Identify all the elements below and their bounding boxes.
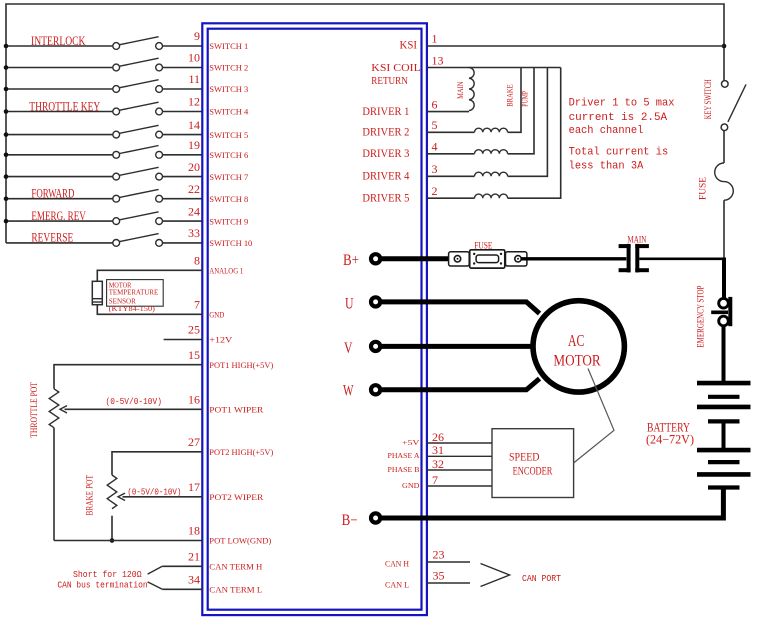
svg-text:SWITCH 1: SWITCH 1 [209, 41, 248, 51]
relay K1 MAIN contactor tips [619, 244, 649, 273]
svg-text:11: 11 [188, 72, 200, 86]
svg-text:7: 7 [194, 298, 200, 312]
wire pot1 low leg [53, 428, 55, 541]
op-amp U1 controller box (blue double border) [202, 23, 427, 615]
svg-text:32: 32 [432, 457, 444, 471]
inductor L2 driver2 load coil [427, 68, 521, 133]
svg-text:8: 8 [194, 254, 200, 268]
svg-text:PUMP: PUMP [520, 91, 530, 107]
svg-text:ENCODER: ENCODER [513, 464, 553, 478]
wire contactor to battery branch [639, 257, 724, 260]
wire pin 18 pot low [54, 540, 203, 542]
wire can port chevron [481, 564, 510, 587]
svg-text:19: 19 [188, 138, 200, 152]
svg-text:W: W [343, 382, 354, 399]
wire B- to battery [380, 489, 723, 518]
wire can termination chevron [148, 566, 163, 589]
svg-text:FUSE: FUSE [474, 241, 493, 251]
svg-text:DRIVER 3: DRIVER 3 [362, 148, 409, 160]
svg-text:SWITCH 7: SWITCH 7 [209, 172, 248, 182]
svg-text:GND: GND [402, 481, 420, 490]
switch S11 key switch [721, 81, 746, 131]
svg-text:17: 17 [188, 480, 200, 494]
wire leader motor to encoder [574, 369, 614, 464]
svg-text:DRIVER 2: DRIVER 2 [362, 127, 409, 139]
svg-text:24: 24 [188, 204, 200, 218]
wire pin 35 can L [427, 568, 470, 583]
svg-text:AC: AC [568, 331, 584, 350]
svg-text:20: 20 [188, 160, 200, 174]
svg-text:B+: B+ [343, 252, 359, 269]
svg-text:MOTOR: MOTOR [553, 353, 601, 370]
node pot low junction [110, 538, 115, 543]
motor M1 AC motor [533, 301, 624, 392]
svg-text:PHASE A: PHASE A [388, 451, 421, 460]
svg-text:EMERG. REV: EMERG. REV [31, 209, 85, 223]
wire pin 34 can term L [162, 588, 203, 590]
svg-text:35: 35 [433, 568, 445, 582]
svg-text:SWITCH 6: SWITCH 6 [209, 150, 248, 160]
svg-text:DRIVER 5: DRIVER 5 [362, 192, 409, 204]
svg-text:(0-5V/0-10V): (0-5V/0-10V) [106, 396, 162, 407]
inductor L3 driver3 load coil [427, 68, 534, 154]
svg-text:18: 18 [188, 524, 200, 538]
svg-text:KEY SWITCH: KEY SWITCH [704, 79, 714, 119]
wire W phase [380, 379, 540, 390]
svg-text:POT2 WIPER: POT2 WIPER [209, 492, 263, 502]
svg-text:SWITCH 2: SWITCH 2 [209, 63, 248, 73]
wire pin 1 KSI [427, 45, 724, 47]
terminal B+ [371, 254, 380, 263]
svg-text:FORWARD: FORWARD [31, 187, 74, 201]
svg-text:7: 7 [432, 473, 438, 487]
terminal V [371, 342, 380, 351]
svg-text:CAN PORT: CAN PORT [522, 574, 562, 584]
label driver note text [569, 97, 675, 172]
label AC MOTOR [553, 331, 601, 370]
terminal U [371, 297, 380, 306]
svg-text:6: 6 [432, 97, 438, 111]
svg-text:2: 2 [432, 184, 438, 198]
wire pin 13 KSI coil return bus [427, 67, 561, 69]
inductor L5 driver5 load coil [427, 68, 561, 199]
battery BT1 [697, 383, 751, 487]
svg-text:SPEED: SPEED [509, 449, 540, 463]
node key-switch feed junction [722, 44, 727, 49]
svg-text:GND: GND [209, 310, 224, 320]
svg-text:MAIN: MAIN [455, 82, 465, 99]
svg-text:25: 25 [188, 323, 200, 337]
switch SW2 (pin 10) [4, 51, 203, 71]
switch S12 emergency stop [711, 297, 730, 326]
switch SW5 (pin 14) [4, 118, 203, 138]
terminal B- [371, 513, 380, 522]
inductor L1 MAIN contactor coil [469, 68, 474, 111]
wire pin 8 analog [97, 270, 203, 281]
svg-text:KSI: KSI [400, 38, 418, 52]
svg-text:POT2 HIGH(+5V): POT2 HIGH(+5V) [209, 447, 273, 457]
svg-text:BRAKE: BRAKE [505, 84, 515, 107]
switch SW3 (pin 11) [4, 72, 203, 92]
svg-text:33: 33 [188, 226, 200, 240]
svg-text:THROTTLE POT: THROTTLE POT [30, 382, 40, 438]
svg-text:15: 15 [188, 348, 200, 362]
svg-text:(24−72V): (24−72V) [646, 433, 694, 447]
wire pin 6 driver1 [427, 111, 469, 113]
svg-text:SWITCH 3: SWITCH 3 [209, 84, 248, 94]
resistor RV1 throttle pot [49, 389, 59, 428]
svg-text:34: 34 [188, 573, 200, 587]
svg-text:CAN TERM L: CAN TERM L [209, 585, 262, 595]
wire U phase [380, 302, 540, 314]
wire B+ to fuse [380, 256, 455, 261]
wire fuse to junction [723, 200, 725, 259]
wire encoder pin 32 [427, 457, 492, 471]
wire pin 25 +12V stub [164, 339, 203, 341]
svg-text:21: 21 [188, 550, 200, 564]
wire pin 21 can term H [162, 565, 203, 567]
wire pot2 low leg [111, 516, 113, 541]
svg-text:10: 10 [188, 51, 200, 65]
switch SW4 (pin 12) [4, 95, 203, 115]
svg-text:current is 2.5A: current is 2.5A [569, 112, 668, 124]
svg-text:CAN bus termination: CAN bus termination [57, 580, 147, 591]
svg-text:FUSE: FUSE [698, 176, 708, 200]
svg-text:POT LOW(GND): POT LOW(GND) [209, 536, 271, 546]
svg-text:DRIVER 1: DRIVER 1 [362, 106, 409, 118]
switch SW1 (pin 9) [4, 29, 203, 49]
wire pin 15 pot1 high [54, 365, 203, 389]
svg-text:1: 1 [432, 32, 438, 46]
svg-text:Driver 1 to 5 max: Driver 1 to 5 max [569, 97, 675, 109]
svg-text:4: 4 [432, 140, 438, 154]
inductor L4 driver4 load coil [427, 68, 548, 177]
svg-text:POT1 WIPER: POT1 WIPER [209, 405, 263, 415]
svg-text:5: 5 [432, 118, 438, 132]
svg-text:PHASE B: PHASE B [388, 465, 420, 474]
svg-text:KSI COIL: KSI COIL [371, 62, 421, 74]
svg-text:SWITCH 4: SWITCH 4 [209, 107, 249, 117]
wire encoder pin 26 [427, 430, 492, 444]
wire pin 7 gnd [97, 305, 203, 315]
svg-text:RETURN: RETURN [371, 75, 408, 87]
label SPEED ENCODER [509, 449, 552, 477]
wire encoder pin 31 [427, 443, 492, 457]
wire fuse to main contactor [521, 257, 626, 260]
wire pin 16 pot1 wiper with arrow [60, 406, 203, 413]
fuse F2 (S-curve symbol) [715, 163, 734, 200]
svg-text:Short for 120Ω: Short for 120Ω [73, 569, 142, 580]
wire V phase [380, 344, 535, 349]
svg-text:SENSOR: SENSOR [109, 297, 136, 305]
svg-text:31: 31 [432, 443, 444, 457]
fuse F1 holder [449, 250, 527, 268]
wire emergency stop to battery [722, 326, 726, 383]
svg-text:+12V: +12V [209, 335, 233, 345]
svg-text:EMERGENCY STOP: EMERGENCY STOP [696, 286, 706, 348]
terminal W [371, 385, 380, 394]
switch SW9 (pin 24) [4, 204, 203, 224]
svg-text:POT1 HIGH(+5V): POT1 HIGH(+5V) [209, 360, 273, 370]
switch SW6 (pin 19) [4, 138, 203, 158]
svg-text:(KTY84-150): (KTY84-150) [109, 305, 156, 313]
svg-text:22: 22 [188, 182, 200, 196]
svg-text:16: 16 [188, 393, 200, 407]
svg-text:SWITCH 10: SWITCH 10 [209, 238, 252, 248]
svg-text:B−: B− [342, 512, 358, 529]
svg-text:SWITCH 8: SWITCH 8 [209, 194, 248, 204]
svg-text:THROTTLE KEY: THROTTLE KEY [29, 99, 100, 113]
svg-text:23: 23 [433, 547, 445, 561]
svg-text:13: 13 [432, 53, 444, 67]
box speed encoder [492, 429, 574, 498]
switch SW8 (pin 22) [4, 182, 203, 202]
label BATTERY (24-72V) [646, 420, 694, 446]
svg-text:3: 3 [432, 162, 438, 176]
svg-text:CAN H: CAN H [385, 559, 409, 569]
switch SW10 (pin 33) [6, 226, 203, 246]
svg-text:MAIN: MAIN [627, 234, 646, 244]
svg-text:CAN TERM H: CAN TERM H [209, 562, 262, 572]
svg-text:SWITCH 5: SWITCH 5 [209, 130, 248, 140]
svg-text:CAN L: CAN L [385, 580, 409, 590]
svg-text:SWITCH 9: SWITCH 9 [209, 216, 248, 226]
svg-text:BRAKE POT: BRAKE POT [86, 475, 96, 516]
wire pin 27 pot2 high [112, 452, 203, 475]
svg-text:12: 12 [188, 95, 200, 109]
svg-text:(0-5V/0-10V): (0-5V/0-10V) [127, 487, 181, 498]
svg-text:V: V [344, 340, 353, 357]
svg-text:DRIVER 4: DRIVER 4 [362, 171, 409, 183]
wire junction to emergency stop [722, 258, 726, 299]
wire key switch to fuse [723, 131, 725, 163]
svg-text:26: 26 [432, 430, 444, 444]
svg-text:INTERLOCK: INTERLOCK [31, 34, 86, 48]
svg-text:less than 3A: less than 3A [569, 161, 644, 173]
wire encoder pin 7 [427, 473, 492, 487]
svg-text:U: U [345, 295, 354, 312]
wire pin 17 pot2 wiper with arrow [118, 493, 203, 500]
svg-text:14: 14 [188, 118, 200, 132]
svg-text:9: 9 [194, 29, 200, 43]
svg-text:Total current is: Total current is [569, 147, 669, 159]
svg-text:each channel: each channel [569, 125, 644, 137]
wire pin 23 can H [427, 547, 470, 562]
resistor RT1 motor temperature sensor [92, 281, 102, 304]
svg-text:REVERSE: REVERSE [31, 231, 73, 245]
svg-text:+5V: +5V [402, 438, 420, 447]
svg-text:ANALOG 1: ANALOG 1 [209, 266, 243, 276]
label MOTOR TEMPERATURE SENSOR (KTY84-150) [107, 280, 164, 314]
svg-text:27: 27 [188, 435, 200, 449]
wire top supply bus [6, 4, 724, 243]
switch SW7 (pin 20) [4, 160, 203, 180]
resistor RV2 brake pot [107, 475, 117, 509]
svg-text:TEMPERATURE: TEMPERATURE [109, 289, 159, 297]
label Short for 120 ohm CAN bus termination [57, 569, 147, 591]
